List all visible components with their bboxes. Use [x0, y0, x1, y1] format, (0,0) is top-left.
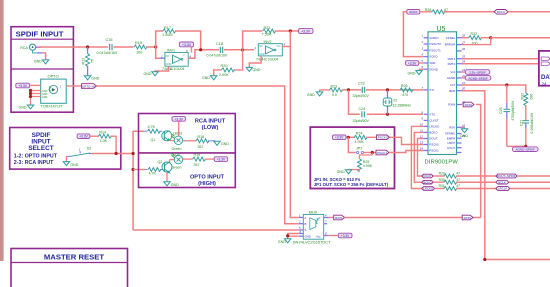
connector J? RCA jack [20, 44, 42, 53]
node output junction INV1 [199, 48, 202, 51]
svg-text:C24: C24 [359, 107, 366, 111]
node: junction at R13 [86, 45, 89, 48]
svg-text:47: 47 [456, 171, 460, 175]
svg-text:COUT: COUT [447, 146, 455, 150]
svg-text:DOUT~SPDIF: DOUT~SPDIF [497, 174, 516, 178]
node FLT/C26 junction [505, 83, 508, 86]
node Y2 top junction [386, 88, 389, 91]
resistor R20 2.00K [219, 64, 235, 77]
svg-text:+3.3V: +3.3V [174, 117, 183, 121]
wire input jog down into INV1 [156, 47, 161, 58]
ground (R23 crystal) [307, 90, 330, 97]
svg-text:C15: C15 [106, 38, 113, 42]
ground (S3) [63, 156, 79, 167]
node crystal top-left junction [347, 88, 350, 91]
svg-text:R23: R23 [331, 85, 338, 89]
svg-text:GND: GND [460, 134, 468, 138]
svg-text:26: 26 [461, 47, 466, 51]
svg-text:75: 75 [91, 59, 95, 63]
U5 left pin numbers 1-7 [420, 34, 423, 90]
op-amp U? inverter INV2 74AHC1GU04 [254, 40, 286, 62]
svg-text:+3.3V: +3.3V [301, 30, 311, 34]
svg-text:AUDIO: AUDIO [429, 36, 439, 40]
svg-text:R18: R18 [198, 135, 205, 139]
svg-text:GND: GND [144, 72, 152, 76]
hierarchical block DAI sheet 24 [539, 51, 550, 87]
power tag +3.3V (INV1) [180, 42, 194, 52]
node select/Q1 junction [132, 152, 135, 155]
resistor R18 357 [196, 135, 216, 149]
wire CKSEL net to edge [491, 37, 550, 39]
svg-text:2: 2 [420, 40, 423, 44]
ground (RCA jack shield) [34, 53, 49, 64]
MASTER RESET block box [11, 249, 128, 287]
svg-text:RXIN: RXIN [465, 103, 472, 107]
svg-text:357: 357 [198, 145, 204, 149]
U5 left pin stubs group 1 (pins 1-6) [424, 38, 428, 69]
node PSCK1 junction [371, 151, 374, 154]
ground (MUX) [278, 239, 291, 244]
svg-text:47: 47 [456, 178, 460, 182]
wire C18 to INV2 [224, 49, 254, 51]
svg-text:GND: GND [70, 163, 78, 167]
net tag PSCK0 [377, 135, 390, 140]
net tag LRCLK [496, 187, 550, 191]
net tag SCK0 (top) [407, 10, 420, 15]
wire feedback loop right (INV1) [175, 31, 201, 50]
wire MCLK to edge [508, 11, 550, 13]
U5 right pin stubs [457, 38, 462, 153]
svg-text:CLKST: CLKST [429, 119, 439, 123]
svg-text:4.99K: 4.99K [355, 140, 365, 144]
svg-text:C27: C27 [519, 120, 523, 126]
wire AGND rail bottom [507, 145, 526, 147]
svg-text:GND: GND [305, 234, 311, 238]
power tag +3.3V (INV2 output pull-up) [299, 29, 314, 34]
svg-text:1.0K: 1.0K [100, 139, 108, 143]
wire PSCK0 to chip pin 13 [390, 137, 424, 144]
crystal Y2 12.288MHz [383, 90, 411, 114]
wire RXIN run to chip [345, 105, 481, 218]
svg-text:+3.3V: +3.3V [335, 136, 344, 140]
svg-text:FLT: FLT [450, 83, 455, 87]
jumper JP1 [348, 137, 376, 153]
ground (R20) [202, 70, 222, 80]
svg-text:INV2: INV2 [264, 40, 272, 44]
SPDIF INPUT SELECT block box [10, 128, 121, 170]
LED4 Green [171, 152, 193, 169]
svg-text:NC: NC [259, 44, 263, 48]
svg-text:(LOW): (LOW) [202, 125, 219, 131]
net tag DOUT~SPDIF [496, 174, 550, 178]
svg-text:XTI: XTI [429, 88, 434, 92]
power tag AGND~SPDIF (pin 22) [462, 76, 491, 81]
svg-text:OPTO INPUT: OPTO INPUT [190, 174, 225, 180]
resistor R21 7.50K [262, 26, 276, 36]
resistor R15 100 [134, 41, 147, 54]
node select/Q2 junction [132, 168, 135, 171]
wire PSCK1 to chip pin 14 [389, 151, 424, 153]
ground (R13) [84, 76, 99, 81]
svg-text:GND: GND [278, 240, 286, 244]
svg-text:2: 2 [298, 220, 301, 224]
svg-text:R21: R21 [264, 26, 271, 30]
svg-text:R19: R19 [194, 153, 201, 157]
U5 right pin numbers [461, 34, 466, 139]
svg-text:S: S [305, 228, 307, 232]
svg-text:NC: NC [166, 54, 170, 58]
svg-text:AGND: AGND [447, 76, 455, 80]
svg-text:0.0: 0.0 [332, 93, 337, 97]
wire feedback loop left (INV1) [156, 31, 164, 47]
svg-text:FSOUT1: FSOUT1 [429, 48, 441, 52]
resistor R24 4.99K [354, 132, 376, 145]
wire C23 to XTI rail [366, 89, 424, 91]
svg-text:R20: R20 [221, 64, 228, 68]
resistor R29 47 [439, 171, 496, 178]
svg-text:DGND: DGND [429, 67, 438, 71]
node mux ground junction [286, 234, 289, 237]
transistor Q2 [158, 160, 175, 173]
svg-text:3.3V~SPDIF: 3.3V~SPDIF [469, 70, 486, 74]
resistor R23 0.0 [330, 85, 343, 98]
U5 left pin stubs group 2 (pins 8-14) [424, 114, 428, 150]
net tag DOUT [422, 174, 445, 178]
capacitor C26 4700pfd/50V [499, 85, 515, 146]
svg-text:GND: GND [166, 62, 172, 66]
node JP1 +3.3V junction [347, 136, 350, 139]
svg-text:R24: R24 [356, 132, 363, 136]
U5 left pin numbers 8-14 [420, 110, 424, 150]
svg-text:GND: GND [337, 170, 345, 174]
svg-text:FMT1: FMT1 [448, 57, 456, 61]
wire R15 to INV1 input node [146, 46, 156, 48]
svg-text:INV1: INV1 [167, 49, 175, 53]
wire switch to node [92, 153, 134, 155]
svg-text:2.00K: 2.00K [219, 73, 229, 77]
wire RCA to R13 node [38, 46, 108, 48]
net tag PSCK1 [376, 150, 389, 155]
ground (R25) [337, 170, 360, 174]
svg-text:74AHC1GU04: 74AHC1GU04 [256, 58, 278, 62]
node Y2 bottom junction [386, 113, 389, 116]
resistor R28 47 [420, 8, 448, 14]
power tag +3.3V (LED3) [172, 117, 186, 137]
svg-text:R31: R31 [439, 184, 445, 188]
wire R23 to C23 [342, 89, 362, 91]
svg-text:GND: GND [408, 71, 416, 75]
wire FMT1 to DAI [462, 58, 541, 60]
svg-text:GND: GND [307, 93, 315, 97]
svg-text:+3.3V: +3.3V [217, 158, 226, 162]
svg-text:EMPH: EMPH [447, 136, 455, 140]
svg-text:4.99K: 4.99K [363, 164, 373, 168]
net tag BCLK [496, 180, 550, 184]
indicator block box (RCA INPUT LOW / OPTO INPUT HIGH) [139, 114, 236, 188]
svg-text:FSOUT0: FSOUT0 [429, 42, 441, 46]
ground (Q2) [164, 182, 179, 187]
ground (chip pin 16) [460, 127, 468, 138]
svg-text:DAT: DAT [541, 75, 550, 81]
op-amp U? inverter INV1 74AHC1GU04 [160, 49, 192, 72]
svg-text:MCLK: MCLK [497, 10, 505, 14]
wire INV1 output [188, 50, 219, 58]
svg-text:XTO: XTO [429, 112, 436, 116]
svg-text:1.00M: 1.00M [162, 33, 173, 37]
page border band [0, 0, 4, 261]
svg-text:Green: Green [172, 165, 182, 169]
svg-text:JP1: JP1 [356, 147, 362, 151]
svg-text:RXIN: RXIN [335, 216, 342, 220]
svg-text:USDT: USDT [447, 141, 455, 145]
svg-text:GND: GND [171, 183, 179, 187]
net tag MCLK [494, 10, 508, 15]
resistor R33 680 [520, 92, 533, 120]
svg-text:OPTO: OPTO [48, 74, 59, 79]
svg-text:FMT0: FMT0 [448, 62, 456, 66]
svg-text:GND: GND [253, 68, 261, 72]
svg-text:+3.3V: +3.3V [79, 135, 88, 139]
svg-text:680: 680 [530, 94, 534, 100]
resistor R14 1.0K [98, 131, 111, 143]
resistor R? 4.7K (Q1 base) [144, 125, 162, 133]
resistor R30 47 [439, 178, 496, 184]
power tag +3.3V (JP1) [333, 135, 356, 140]
svg-text:JP1 OUT: SCKO = 256 Fs (DEFAU: JP1 OUT: SCKO = 256 Fs (DEFAULT) [314, 182, 389, 187]
node INV1 input junction [154, 45, 157, 48]
svg-text:4.7K: 4.7K [149, 171, 157, 175]
node bottom right junction [483, 258, 486, 261]
svg-text:R15: R15 [135, 41, 142, 45]
node junction at R21 right [289, 29, 292, 32]
svg-text:LRCLK: LRCLK [498, 187, 507, 191]
svg-text:SCKO: SCKO [429, 55, 438, 59]
svg-text:GND: GND [221, 142, 229, 146]
svg-text:+3.3V: +3.3V [341, 234, 350, 238]
svg-text:B: B [305, 222, 307, 226]
wire R28 to MCLK [444, 11, 494, 13]
svg-text:2: 2 [254, 46, 257, 50]
wire DOUT routing (pin 12) [418, 139, 424, 177]
svg-text:PSCK1: PSCK1 [377, 151, 387, 155]
svg-text:C23: C23 [358, 82, 365, 86]
svg-text:GND: GND [42, 96, 48, 99]
svg-text:RCA: RCA [20, 46, 28, 50]
svg-text:SCK0: SCK0 [409, 10, 417, 14]
SPDIF INPUT block box [11, 27, 73, 113]
svg-text:Y: Y [183, 53, 185, 57]
mux pin stubs and numbers [298, 213, 329, 236]
wire R14 to select node [110, 136, 116, 153]
svg-text:GND: GND [91, 77, 99, 81]
svg-text:R32: R32 [471, 32, 478, 36]
svg-text:R17: R17 [164, 26, 171, 30]
svg-text:4700pfd/50V: 4700pfd/50V [511, 100, 515, 121]
svg-text:0.068ufd/16V: 0.068ufd/16V [530, 112, 534, 133]
svg-text:19: 19 [462, 101, 466, 105]
svg-text:SFRMC: SFRMC [445, 132, 455, 136]
svg-text:470: 470 [402, 93, 408, 97]
svg-text:MUX: MUX [309, 210, 318, 214]
svg-text:C18: C18 [216, 42, 223, 46]
svg-text:GND: GND [19, 105, 27, 109]
resistor R19 357 [193, 153, 215, 167]
wire R20 drop [235, 50, 243, 70]
svg-text:2: 2 [160, 54, 163, 58]
node AGND rail junction [524, 145, 527, 148]
capacitor C18 0.047ufd/16V [207, 42, 228, 57]
wire mux pin6/GND tie [288, 234, 299, 239]
svg-text:A: A [305, 216, 307, 220]
net tag RXIN (mid-run) [462, 215, 473, 220]
pin 7 XTI stub [424, 89, 428, 91]
U5 right pin names [445, 36, 456, 150]
svg-text:DOUT: DOUT [429, 137, 437, 141]
svg-text:GND: GND [34, 60, 42, 64]
svg-text:Y: Y [319, 216, 321, 220]
wire INV2 output to MUX A (vertical at x=290.3) [282, 31, 299, 218]
svg-text:AGND~SPDIF: AGND~SPDIF [468, 76, 487, 80]
svg-text:BCLK: BCLK [498, 180, 506, 184]
svg-text:Vcc: Vcc [450, 70, 455, 74]
svg-text:2-3: RCA INPUT: 2-3: RCA INPUT [14, 160, 54, 166]
wire mux output Y [329, 217, 334, 219]
power tag 3.3V~SPDIF (pin 23) [462, 70, 490, 75]
wire LRCKO routing (pin 10) [411, 126, 423, 188]
wire ERROR pin to R32 node [462, 38, 491, 45]
svg-text:R30: R30 [439, 178, 445, 182]
svg-text:S3: S3 [87, 146, 91, 150]
power tag +3.3V (MUX Vcc) [329, 233, 352, 238]
node R32 junction [489, 36, 492, 39]
svg-text:Q2: Q2 [158, 160, 163, 164]
svg-text:AGND~SPDIF: AGND~SPDIF [516, 148, 535, 152]
opto receiver U? TORX147LFT [41, 74, 66, 109]
svg-text:Vcc: Vcc [277, 44, 282, 48]
capacitor C15 0.047ufd/16V [97, 38, 118, 55]
svg-text:VDD: VDD [429, 61, 435, 65]
LED3 Green [172, 131, 197, 150]
resistor R26 470 [400, 84, 413, 97]
node select junction (R14) [115, 152, 118, 155]
svg-text:RXIN: RXIN [448, 103, 455, 107]
svg-text:TORX147LFT: TORX147LFT [41, 104, 64, 108]
wire opto left pins bus to ground [29, 89, 41, 105]
JP1 block box [310, 127, 394, 188]
capacitor C27 0.068ufd/16V [519, 112, 534, 146]
svg-text:Q1: Q1 [151, 138, 156, 142]
svg-text:GND: GND [202, 76, 210, 80]
svg-text:13: 13 [420, 141, 424, 145]
wire SCK0 tag down to chip pin 4 [403, 12, 423, 57]
svg-text:LED3: LED3 [173, 131, 182, 135]
svg-text:14: 14 [420, 147, 424, 151]
wire BFR pin 20 net to bottom right [462, 91, 550, 260]
power tag +3.3V (select pull-up) [77, 134, 99, 139]
svg-text:RXIN: RXIN [464, 216, 471, 220]
wire FMT0 to DAI [462, 63, 541, 65]
svg-text:12.288MHz: 12.288MHz [393, 103, 412, 107]
svg-text:DOUT: DOUT [424, 174, 432, 178]
node R20/R21 junction [241, 48, 244, 51]
power tag +3.3V (opto) [16, 83, 41, 88]
wire BCKO routing (pin 11) [414, 132, 423, 182]
IC U5 DIR9001PW body [425, 26, 459, 165]
net tag OPTO~IN [82, 84, 97, 89]
power tag +3.3V (LED4) [214, 157, 228, 162]
svg-text:Y2: Y2 [393, 99, 397, 103]
svg-text:PSCK1: PSCK1 [429, 149, 439, 153]
svg-text:+3.3V: +3.3V [408, 61, 417, 65]
U5 left pin names [429, 36, 441, 153]
svg-text:LRCKO: LRCKO [429, 125, 440, 129]
svg-text:R13: R13 [81, 58, 85, 65]
net tag RXIN (at mux) [334, 215, 345, 220]
svg-text:+3.3V: +3.3V [182, 43, 192, 47]
mux U? SN74LVC2G157DCT [293, 210, 331, 244]
svg-text:33pfd/50V: 33pfd/50V [353, 119, 370, 123]
resistor R25 4.99K [358, 153, 373, 172]
resistor R32 100 (on CKSEL) [462, 32, 491, 45]
svg-text:0.047ufd/16V: 0.047ufd/16V [97, 51, 118, 55]
ground (opto) [19, 105, 34, 109]
svg-text:RCA INPUT: RCA INPUT [195, 118, 226, 124]
ground (chip DGND pin 6) [408, 69, 424, 75]
wire FLT rail [462, 85, 526, 92]
svg-text:(HIGH): (HIGH) [198, 181, 216, 187]
svg-text:7.50K: 7.50K [262, 32, 272, 36]
svg-text:BCKO: BCKO [424, 180, 433, 184]
svg-text:100: 100 [136, 51, 142, 55]
svg-text:+3.3V: +3.3V [18, 84, 28, 88]
net tag LRCKO [422, 187, 445, 191]
wire select vertical (to Q1, Q2, MUX S) [133, 131, 299, 230]
svg-text:47: 47 [456, 184, 460, 188]
svg-text:MASTER RESET: MASTER RESET [44, 253, 105, 262]
power tag AGND~SPDIF (filter) [513, 147, 539, 152]
svg-text:LRCKO: LRCKO [423, 187, 433, 191]
net tag RXIN (at chip pin 19) [462, 102, 475, 107]
svg-text:PSCK0: PSCK0 [378, 136, 388, 140]
switch S3 [66, 146, 92, 156]
svg-text:R26: R26 [401, 84, 408, 88]
wire R21 vertical [243, 31, 263, 50]
svg-text:R29: R29 [439, 171, 445, 175]
wire R21 to +3.3V node [275, 30, 299, 32]
wire crystal bottom rail [349, 90, 424, 114]
svg-text:CKSEL: CKSEL [446, 36, 456, 40]
svg-text:BCKO: BCKO [429, 131, 438, 135]
transistor Q1 [151, 131, 175, 143]
resistor R13 75 (vertical to GND) [81, 47, 94, 76]
wire OPTO net to MUX B (long horizontal + vertical at x=284.7) [97, 86, 299, 224]
svg-text:OPTO~IN: OPTO~IN [82, 84, 95, 88]
wire Q2 emitter to ground [166, 172, 168, 182]
svg-text:357: 357 [194, 163, 200, 167]
ground (INV2) [246, 56, 261, 72]
svg-text:1-2: OPTO INPUT: 1-2: OPTO INPUT [14, 153, 58, 159]
svg-text:0.047ufd/16V: 0.047ufd/16V [207, 53, 228, 57]
svg-text:C26: C26 [499, 107, 503, 113]
svg-text:DIR9001PW: DIR9001PW [425, 159, 459, 165]
svg-text:BFR: BFR [449, 89, 455, 93]
capacitor C23 33pfd/50V [353, 82, 370, 99]
net tag BCKO [422, 180, 445, 184]
resistor R31 47 [439, 184, 496, 190]
svg-text:ERROR: ERROR [445, 43, 455, 47]
svg-text:RSV: RSV [449, 125, 455, 129]
svg-text:SPDIF INPUT: SPDIF INPUT [16, 30, 64, 39]
